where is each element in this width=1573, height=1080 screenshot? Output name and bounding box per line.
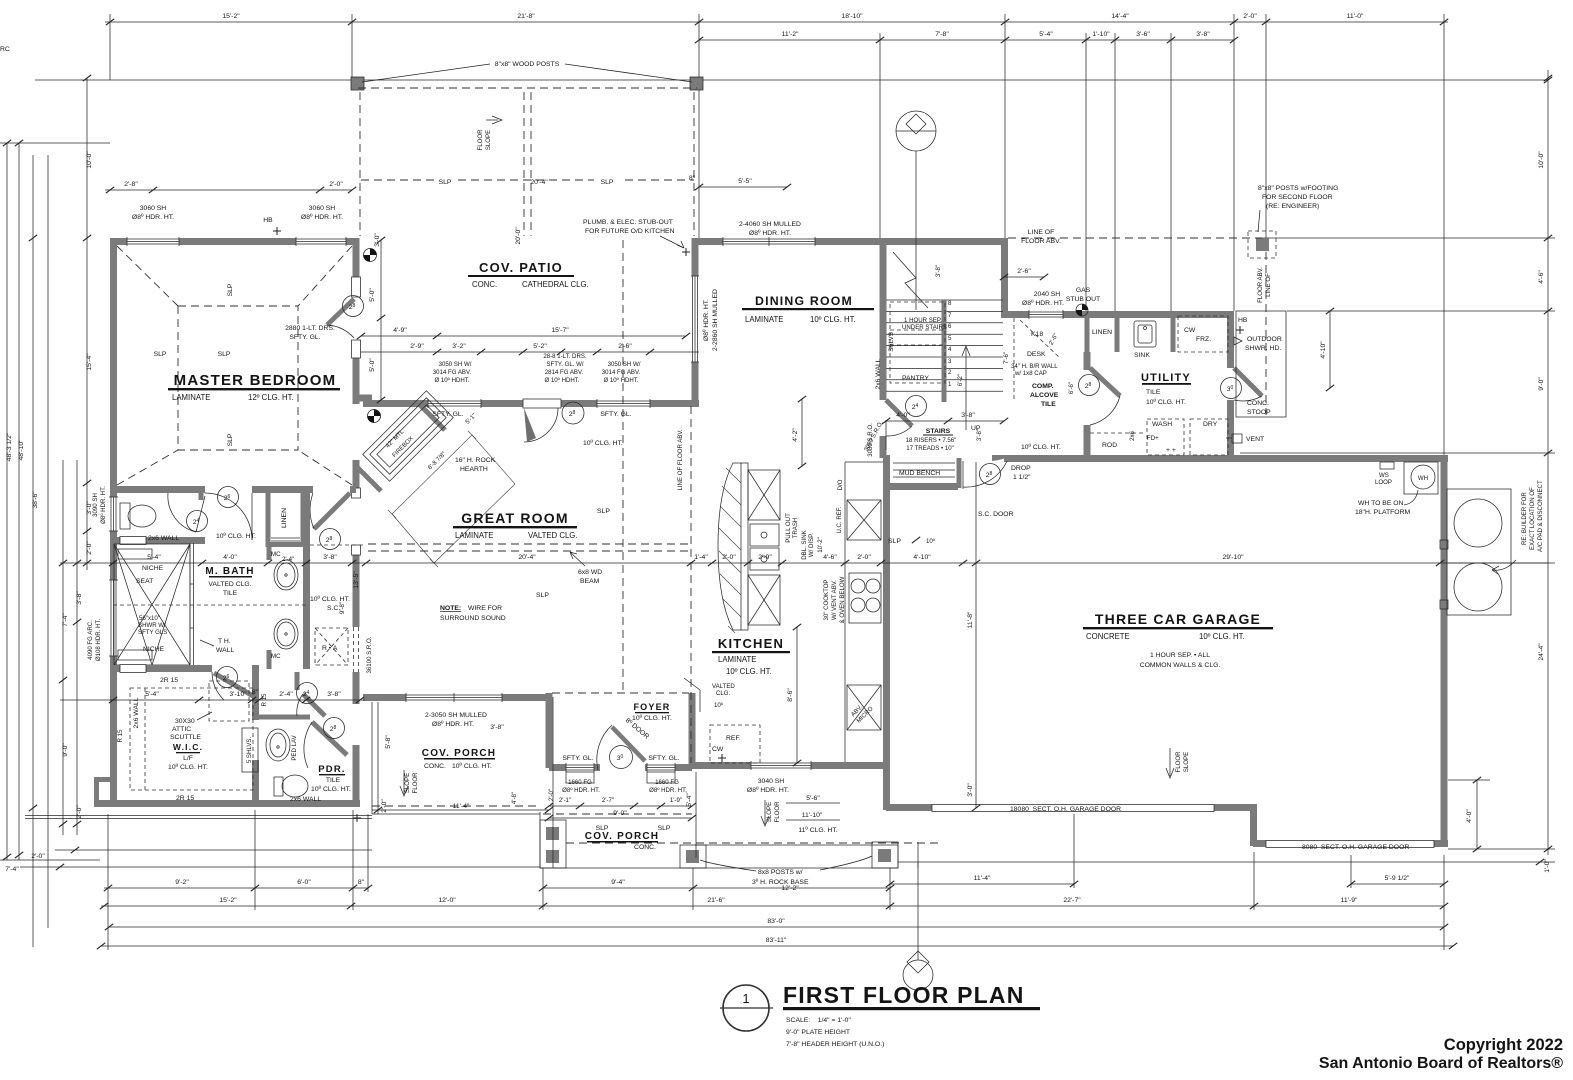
svg-text:1'-9": 1'-9": [670, 797, 682, 804]
svg-text:SINK: SINK: [1134, 352, 1150, 359]
label 30x30 attic: [170, 718, 201, 741]
svg-text:SLP: SLP: [218, 351, 231, 358]
svg-text:DINING ROOM: DINING ROOM: [755, 294, 853, 308]
svg-text:5'-1": 5'-1": [464, 412, 478, 426]
svg-text:9'-0": 9'-0": [1538, 377, 1545, 391]
svg-text:REF.: REF.: [726, 735, 741, 742]
svg-text:5: 5: [948, 335, 952, 342]
svg-text:3050 SH W/: 3050 SH W/: [439, 361, 472, 368]
svg-text:RE: BUILDER FOR: RE: BUILDER FOR: [1521, 492, 1528, 545]
svg-text:10º CLG. HT.: 10º CLG. HT.: [810, 315, 856, 324]
wall master bedroom east / great room west: [352, 238, 361, 700]
svg-text:FLOOR ABV.: FLOOR ABV.: [1257, 267, 1264, 303]
svg-text:PANTRY: PANTRY: [902, 375, 929, 382]
porch post left: [540, 820, 566, 868]
svg-text:2'-0": 2'-0": [381, 799, 388, 813]
rotated window labels west wall: [87, 486, 107, 661]
svg-text:ROD: ROD: [1102, 442, 1117, 449]
svg-text:RC: RC: [0, 46, 10, 53]
toilet pdr: [274, 775, 308, 797]
line of floor abv labels: [1021, 229, 1061, 245]
svg-text:2'-0": 2'-0": [722, 554, 736, 561]
label THREE CAR GARAGE: [1083, 611, 1273, 669]
shower niche rects: [118, 549, 152, 559]
svg-text:28: 28: [326, 536, 333, 544]
svg-text:PED LAV: PED LAV: [291, 734, 298, 760]
svg-text:SFTY. GL. W/: SFTY. GL. W/: [546, 361, 583, 368]
svg-text:NOTE:: NOTE:: [440, 605, 461, 612]
svg-text:7'-8": 7'-8": [935, 31, 949, 38]
vaulted clg foyer note: [712, 683, 735, 709]
svg-text:1660 FG: 1660 FG: [655, 779, 679, 786]
label WS LOOP: [1375, 472, 1392, 486]
label KITCHEN: [712, 636, 790, 676]
svg-text:8"x8" POSTS w/FOOTING: 8"x8" POSTS w/FOOTING: [1258, 185, 1338, 192]
top dimension row 1: [105, 14, 1448, 455]
svg-text:11'-0": 11'-0": [1347, 13, 1364, 20]
svg-text:Ø8º HDR. HT.: Ø8º HDR. HT.: [301, 214, 343, 221]
svg-text:W.I.C.: W.I.C.: [173, 742, 203, 752]
8x8 post second floor: [1256, 238, 1269, 251]
svg-text:2'-8": 2'-8": [124, 181, 138, 188]
door 28 utility leaf/arc: [1090, 368, 1120, 425]
svg-text:5'-4": 5'-4": [1039, 31, 1053, 38]
plumb elec cross symbol: [682, 248, 690, 256]
svg-text:5'-2": 5'-2": [533, 343, 547, 350]
svg-text:24: 24: [912, 403, 919, 411]
freezer dashed box: [1178, 316, 1228, 352]
svg-text:Ø8º HDR. HT.: Ø8º HDR. HT.: [432, 721, 474, 728]
svg-text:4'-0": 4'-0": [896, 412, 910, 419]
svg-text:VENT: VENT: [1246, 436, 1264, 443]
svg-text:W/ DISP.: W/ DISP.: [808, 533, 815, 558]
svg-text:& OVEN BELOW: & OVEN BELOW: [839, 576, 846, 623]
dining window labels: [739, 221, 801, 237]
svg-text:4'-6": 4'-6": [1538, 270, 1545, 284]
svg-text:5'-4": 5'-4": [145, 691, 159, 698]
svg-text:3'-8": 3'-8": [961, 412, 975, 419]
svg-text:SLOPE: SLOPE: [485, 130, 492, 150]
svg-text:18 RISERS • 7.56": 18 RISERS • 7.56": [906, 437, 957, 444]
plumb stub label: [583, 219, 675, 235]
garage step wall SE: [1250, 807, 1257, 846]
svg-text:M. BATH: M. BATH: [205, 566, 254, 577]
AC pads: [1440, 489, 1511, 615]
svg-text:7'-6": 7'-6": [1003, 352, 1010, 364]
svg-text:10'-0": 10'-0": [1538, 151, 1545, 169]
svg-text:12º CLG. HT.: 12º CLG. HT.: [248, 393, 294, 402]
svg-text:SLP: SLP: [227, 433, 234, 446]
svg-text:5'-8": 5'-8": [385, 735, 392, 749]
svg-text:15'-4": 15'-4": [86, 353, 93, 371]
main horizontal dim chain y=563: [60, 562, 1548, 564]
svg-text:Ø8º HDR. HT.: Ø8º HDR. HT.: [703, 299, 710, 341]
svg-text:WS: WS: [1379, 472, 1389, 479]
comp alcove dashed: [1014, 318, 1060, 400]
wall foyer south with front door: [549, 763, 692, 772]
svg-text:FLOOR: FLOOR: [477, 129, 484, 151]
svg-text:LINEN: LINEN: [1092, 329, 1112, 336]
porch post right: [872, 842, 898, 868]
svg-text:LINE OF FLOOR ABV.: LINE OF FLOOR ABV.: [677, 429, 684, 490]
shelves 5shlvs box: [242, 728, 258, 772]
attic scuttle dashed: [209, 681, 249, 721]
svg-text:5'-9 1/2": 5'-9 1/2": [1385, 875, 1410, 882]
section marker top: [896, 111, 936, 310]
svg-text:11'-4": 11'-4": [974, 875, 991, 882]
svg-text:6'-6": 6'-6": [1068, 382, 1075, 394]
svg-text:FRZ.: FRZ.: [1196, 336, 1211, 343]
door 26 bath hall leaf/arc: [205, 493, 252, 540]
kitchen labels: [785, 423, 875, 725]
svg-text:4: 4: [948, 346, 952, 353]
SLP labels master: [154, 283, 234, 446]
porch bottom dims: [798, 795, 837, 834]
svg-text:2040 SH: 2040 SH: [1034, 291, 1061, 298]
title block: [720, 985, 773, 1031]
svg-text:BEAM: BEAM: [580, 578, 600, 585]
svg-text:w/ 1x8 CAP: w/ 1x8 CAP: [1014, 370, 1047, 377]
RA return air dashed box: [315, 628, 348, 665]
porch dashed overhang lines: [372, 806, 940, 843]
svg-text:5 SHLVS.: 5 SHLVS.: [246, 737, 253, 764]
door master-patio leaf and arc: [327, 299, 354, 338]
svg-text:2'-1": 2'-1": [559, 797, 571, 804]
svg-text:20'-4": 20'-4": [530, 179, 548, 186]
svg-text:9'-0": 9'-0": [613, 810, 627, 817]
svg-text:30X30: 30X30: [175, 718, 195, 725]
wall utility south / garage north: [1004, 455, 1448, 462]
8x8 posts rock base label: [752, 869, 809, 886]
svg-text:LINE OF: LINE OF: [1028, 229, 1054, 236]
wall WIC east / PDR west: [252, 665, 259, 720]
svg-text:GAS: GAS: [1076, 287, 1091, 294]
wall great room south (porch north): [363, 693, 552, 702]
label COMP ALCOVE: [1027, 331, 1059, 408]
svg-text:DROP: DROP: [1011, 465, 1031, 472]
svg-text:SLOPE: SLOPE: [404, 773, 411, 793]
svg-text:CONCRETE: CONCRETE: [1086, 632, 1130, 641]
svg-text:NICHE: NICHE: [142, 565, 164, 572]
svg-text:10º CLG. HT.: 10º CLG. HT.: [1199, 632, 1245, 641]
wall garage west: [883, 490, 890, 810]
svg-text:24: 24: [193, 518, 200, 526]
kitchen cooktop counter along garage wall: [845, 462, 883, 762]
svg-text:LAMINATE: LAMINATE: [718, 655, 756, 664]
left vertical dimension lines: [0, 78, 110, 947]
wall master bedroom south (bath north): [113, 486, 356, 493]
line of floor above dashed lines: [368, 238, 1266, 763]
svg-text:2: 2: [948, 369, 952, 376]
svg-text:FLOOR: FLOOR: [774, 801, 781, 823]
svg-text:2x6: 2x6: [1129, 430, 1136, 440]
svg-text:2'-9": 2'-9": [758, 554, 772, 561]
datum symbol at great room NW: [368, 410, 381, 423]
svg-text:COV. PORCH: COV. PORCH: [422, 748, 496, 759]
svg-text:SLP: SLP: [439, 179, 452, 186]
svg-text:9'-2": 9'-2": [175, 879, 189, 886]
svg-text:3'-2": 3'-2": [452, 343, 466, 350]
foyer south labels: [562, 755, 679, 762]
bottom dimension rows: [101, 810, 1453, 950]
svg-text:11'-8": 11'-8": [967, 611, 974, 628]
svg-text:5'-0": 5'-0": [369, 288, 376, 302]
fridge dashed box: [710, 725, 760, 763]
svg-text:Ø8º HDR. HT.: Ø8º HDR. HT.: [100, 486, 107, 524]
svg-text:UTILITY: UTILITY: [1141, 372, 1191, 384]
svg-text:SLP: SLP: [888, 538, 901, 545]
svg-text:3040 SH: 3040 SH: [758, 778, 785, 785]
svg-text:SFTY. GL.: SFTY. GL.: [562, 755, 593, 762]
svg-text:9'-4": 9'-4": [611, 879, 625, 886]
door 24 pdr vestibule leaf/arc: [297, 694, 325, 716]
svg-text:10º CLG. HT.: 10º CLG. HT.: [1021, 444, 1061, 451]
vent symbol: [1232, 434, 1242, 443]
svg-text:2'-0": 2'-0": [76, 805, 83, 819]
svg-text:4090 FG ARC.: 4090 FG ARC.: [87, 620, 94, 660]
svg-text:2x6 WALL: 2x6 WALL: [290, 796, 321, 803]
svg-text:GREAT ROOM: GREAT ROOM: [461, 510, 568, 526]
svg-text:2'-0": 2'-0": [1243, 13, 1257, 20]
svg-text:2x6 WALL: 2x6 WALL: [875, 358, 882, 389]
wall master bedroom north: [110, 237, 356, 246]
svg-text:FOR SECOND FLOOR: FOR SECOND FLOOR: [1262, 194, 1333, 201]
svg-text:T H.: T H.: [218, 638, 231, 645]
svg-text:3060 SH: 3060 SH: [140, 205, 167, 212]
svg-text:3'-8": 3'-8": [1196, 31, 1210, 38]
linen closet master bath: [266, 489, 306, 547]
svg-text:7'-4": 7'-4": [62, 613, 69, 627]
svg-text:3014 FG ABV.: 3014 FG ABV.: [602, 369, 641, 376]
svg-text:THREE CAR GARAGE: THREE CAR GARAGE: [1095, 611, 1261, 627]
svg-text:2'-6": 2'-6": [1017, 268, 1031, 275]
svg-text:TILE: TILE: [1146, 389, 1161, 396]
label M BATH: [205, 566, 254, 597]
svg-text:11º CLG. HT.: 11º CLG. HT.: [798, 827, 837, 834]
svg-text:22'-7": 22'-7": [1063, 897, 1081, 904]
svg-text:PDR.: PDR.: [318, 764, 346, 775]
svg-text:CONC.: CONC.: [634, 844, 656, 851]
label MASTER BEDROOM: [168, 372, 340, 402]
svg-text:18"H. PLATFORM: 18"H. PLATFORM: [1355, 509, 1410, 516]
svg-text:WIRE FOR: WIRE FOR: [468, 605, 502, 612]
label SEAT NICHE shower: [136, 565, 165, 653]
svg-text:10º CLG. HT.: 10º CLG. HT.: [216, 533, 256, 540]
section marker bottom: [903, 862, 933, 990]
label PDR: [311, 764, 351, 793]
wall comp alcove west vertical: [1001, 238, 1008, 314]
svg-text:15'-2": 15'-2": [222, 13, 240, 20]
SLP labels patio: [439, 179, 614, 186]
wall left wing south: [97, 800, 360, 807]
label floor slope garage: [1175, 751, 1190, 773]
svg-text:10º CLG. HT.: 10º CLG. HT.: [311, 786, 351, 793]
svg-text:LOOP: LOOP: [1375, 479, 1392, 486]
svg-text:4'-9": 4'-9": [393, 327, 407, 334]
svg-text:16" H. ROCK: 16" H. ROCK: [455, 457, 496, 464]
svg-text:17 TREADS • 10": 17 TREADS • 10": [906, 445, 954, 452]
svg-text:28: 28: [569, 410, 576, 418]
label 1 hour sep: [902, 317, 947, 331]
svg-text:PULL OUT: PULL OUT: [785, 513, 792, 543]
label RE builder AC: [1521, 480, 1544, 552]
porch post middle: [680, 845, 706, 868]
bottom row A center segment 9'-4" / 12'-2": [543, 887, 890, 889]
fireplace angled walls: [356, 398, 445, 491]
wall stairs top: [880, 238, 1004, 245]
svg-text:30: 30: [1227, 385, 1234, 393]
svg-text:COV. PATIO: COV. PATIO: [479, 260, 563, 275]
washer dryer dashed boxes: [1090, 419, 1228, 455]
door 24 toilet room leaf/arc: [168, 493, 205, 532]
svg-text:SCALE: 1/4" = 1'-0": SCALE: 1/4" = 1'-0": [786, 1017, 851, 1024]
garage interior rotated dims: [975, 462, 977, 808]
svg-text:K18: K18: [1031, 331, 1043, 338]
wall master bath east (hall west): [303, 486, 310, 669]
firebox rotated box: [363, 391, 454, 482]
vestibule walls pdr: [258, 715, 310, 720]
svg-text:28: 28: [1085, 382, 1092, 390]
svg-text:83'-0": 83'-0": [767, 918, 785, 925]
shower enclosure box with X: [114, 544, 190, 665]
label FOYER: [632, 702, 672, 722]
svg-text:DRY: DRY: [1203, 421, 1218, 428]
svg-text:CONC.: CONC.: [472, 280, 497, 289]
svg-text:TILE: TILE: [223, 590, 238, 597]
svg-text:24'-4": 24'-4": [1538, 643, 1545, 661]
outdoor shwr labels: [1238, 317, 1282, 352]
svg-text:Ø 10º HDHT.: Ø 10º HDHT.: [544, 377, 579, 384]
svg-text:MUD BENCH: MUD BENCH: [899, 470, 940, 477]
svg-text:DESK: DESK: [1027, 351, 1046, 358]
svg-text:FLOOR: FLOOR: [1175, 751, 1182, 773]
svg-text:3'-8": 3'-8": [935, 265, 942, 277]
svg-text:HEARTH: HEARTH: [460, 466, 488, 473]
svg-text:30: 30: [617, 754, 624, 762]
bath hall dashed lines: [113, 545, 364, 605]
svg-text:SFTY. GL.: SFTY. GL.: [648, 755, 679, 762]
svg-text:3'-6": 3'-6": [1136, 31, 1150, 38]
svg-text:SLP: SLP: [154, 351, 167, 358]
master top dims: [105, 189, 352, 191]
svg-text:28: 28: [330, 725, 337, 733]
svg-text:10º CLG. HT.: 10º CLG. HT.: [583, 440, 623, 447]
svg-text:LAMINATE: LAMINATE: [745, 315, 783, 324]
svg-text:10º CLG. HT.: 10º CLG. HT.: [168, 764, 208, 771]
great room dims above windows: [361, 351, 699, 353]
stairs dims: [886, 420, 1004, 422]
svg-text:TRASH: TRASH: [792, 518, 799, 539]
svg-text:28: 28: [986, 471, 993, 479]
svg-text:6'-0": 6'-0": [297, 879, 311, 886]
svg-text:2-3050 SH MULLED: 2-3050 SH MULLED: [425, 712, 487, 719]
svg-text:FOYER: FOYER: [633, 702, 670, 712]
left wing lower dim chain y=700: [60, 699, 365, 701]
svg-text:4'-8": 4'-8": [511, 792, 518, 804]
svg-text:SLP: SLP: [536, 592, 549, 599]
svg-text:2R 15: 2R 15: [160, 677, 178, 684]
svg-text:9'-0": 9'-0": [62, 743, 69, 757]
svg-text:3'-8": 3'-8": [976, 429, 983, 441]
svg-text:21'-6": 21'-6": [707, 897, 725, 904]
svg-text:LAMINATE: LAMINATE: [172, 393, 210, 402]
svg-text:3'-0": 3'-0": [374, 233, 381, 247]
svg-text:2'-0": 2'-0": [86, 541, 93, 555]
svg-text:2'-0": 2'-0": [548, 789, 555, 801]
svg-text:CLG.: CLG.: [716, 690, 731, 697]
patio interior dims: [361, 335, 686, 337]
stair stringer: [942, 300, 947, 402]
svg-text:2'-6": 2'-6": [1048, 332, 1060, 346]
door 28 garage SC leaf/arc: [992, 455, 1008, 461]
label DROP: [1011, 465, 1031, 481]
svg-text:3'-8": 3'-8": [323, 554, 337, 561]
svg-text:11'-10": 11'-10": [802, 812, 823, 819]
svg-text:CW: CW: [712, 746, 724, 753]
SLP porch labels: [596, 825, 671, 832]
svg-text:FOR FUTURE O/D KITCHEN: FOR FUTURE O/D KITCHEN: [585, 228, 675, 235]
svg-text:CONC.: CONC.: [424, 763, 446, 770]
svg-text:3'-8": 3'-8": [490, 724, 504, 731]
svg-text:21'-8": 21'-8": [517, 13, 535, 20]
svg-text:SFTY. GL.: SFTY. GL.: [289, 334, 320, 341]
door 30 utility exterior leaf/arc: [1234, 368, 1262, 401]
svg-text:3060 SH: 3060 SH: [309, 205, 336, 212]
gas stub symbol: [1076, 304, 1088, 316]
svg-text:10º: 10º: [714, 702, 724, 709]
door 28 master hall leaf/arc: [310, 493, 350, 529]
svg-text:10º CLG. HT.: 10º CLG. HT.: [726, 667, 772, 676]
svg-text:1'-0": 1'-0": [1544, 859, 1551, 873]
svg-text:TILE: TILE: [1041, 401, 1056, 408]
long top extension line through patio posts: [35, 79, 1548, 81]
svg-text:SLOPE: SLOPE: [766, 802, 773, 822]
svg-text:2x6 WALL: 2x6 WALL: [148, 535, 179, 542]
svg-text:SLOPE: SLOPE: [1183, 752, 1190, 772]
svg-text:EXACT LOCATION OF: EXACT LOCATION OF: [1529, 487, 1536, 550]
svg-text:3050 SH W/: 3050 SH W/: [608, 361, 641, 368]
datum symbol at master patio corner: [364, 249, 377, 262]
svg-text:4'-10": 4'-10": [913, 554, 931, 561]
svg-text:4'-6": 4'-6": [823, 554, 837, 561]
svg-text:2-2860 SH MULLED: 2-2860 SH MULLED: [712, 289, 719, 351]
svg-text:NICHE: NICHE: [143, 646, 165, 653]
svg-text:34" H. B/R WALL: 34" H. B/R WALL: [1011, 363, 1058, 370]
svg-text:8"x8" WOOD POSTS: 8"x8" WOOD POSTS: [495, 61, 560, 68]
svg-text:8080 SECT. O.H. GARAGE DOOR: 8080 SECT. O.H. GARAGE DOOR: [1302, 844, 1409, 851]
svg-text:COMP.: COMP.: [1032, 383, 1054, 390]
svg-text:Ø8º HDR. HT.: Ø8º HDR. HT.: [132, 214, 174, 221]
svg-text:HB: HB: [1238, 317, 1248, 324]
svg-text:3: 3: [948, 358, 952, 365]
mud bench divider kitchen counters top: [885, 420, 887, 450]
svg-text:2'-7": 2'-7": [602, 797, 614, 804]
svg-text:7'-4": 7'-4": [5, 866, 19, 873]
svg-text:COMMON WALLS & CLG.: COMMON WALLS & CLG.: [1140, 662, 1221, 669]
svg-text:DBL. SINK: DBL. SINK: [801, 530, 808, 559]
svg-text:U.C. REF.: U.C. REF.: [836, 506, 843, 533]
svg-text:SLP: SLP: [601, 179, 614, 186]
dim line garage SE 4'-0": [1448, 780, 1490, 849]
great room window labels: [433, 353, 641, 384]
gas stub label: [1066, 287, 1100, 303]
svg-text:ALCOVE: ALCOVE: [1030, 392, 1059, 399]
stair numbers: [948, 300, 952, 388]
svg-text:HB: HB: [263, 217, 273, 224]
mud bench walls: [883, 455, 959, 490]
4-10 dim stoop: [1329, 311, 1331, 388]
svg-text:SHWR. HD.: SHWR. HD.: [1245, 345, 1281, 352]
